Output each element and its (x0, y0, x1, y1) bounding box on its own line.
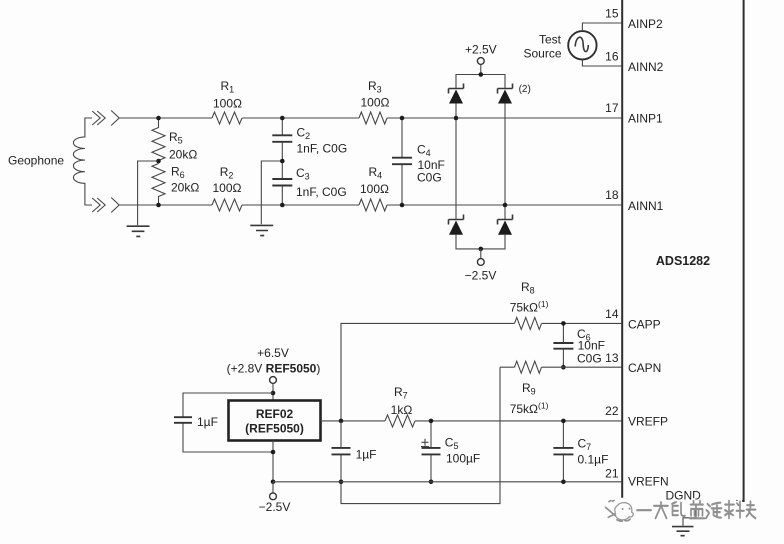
connector jack top (open chevron) (111, 111, 119, 126)
watermark text stroke 蓝 (690, 501, 705, 519)
svg-text:CAPP: CAPP (628, 318, 661, 332)
svg-text:R6: R6 (171, 165, 185, 181)
diode D3 (bottom left, schottky) (449, 215, 464, 235)
resistor R6 (vertical) (152, 164, 165, 206)
node dot VREFN rail left (271, 480, 276, 485)
pin AINN2 name (628, 60, 664, 74)
ground DGND (672, 527, 694, 536)
pin VREFP name (628, 415, 668, 429)
geophone label (8, 154, 64, 168)
C4 label (417, 143, 445, 185)
node dot C7 bottom (561, 480, 566, 485)
wire diode pair to -2.5V rail (456, 235, 505, 249)
svg-text:1nF, C0G: 1nF, C0G (297, 142, 348, 156)
wire R9 return loop to VREFN (341, 367, 500, 503)
R9 label (510, 381, 549, 416)
R4 label (360, 165, 389, 196)
diode D4 (bottom right, schottky) (498, 215, 513, 235)
-2.5V terminal (REF02) (259, 482, 291, 514)
svg-text:20kΩ: 20kΩ (169, 148, 197, 162)
wire REF02 output / VREFP row (321, 420, 622, 422)
node dot rail/VREFN (339, 480, 344, 485)
svg-text:AINN2: AINN2 (628, 60, 664, 74)
wire R5/R6 midnode to ground 1 (138, 161, 159, 225)
capacitor C2 (272, 118, 292, 161)
resistor R5 (vertical) (152, 118, 165, 164)
svg-text:(REF5050): (REF5050) (245, 422, 304, 436)
watermark text stroke 大 (654, 502, 668, 518)
svg-text:22: 22 (605, 404, 619, 418)
capacitor C4 (392, 118, 412, 205)
svg-text:−2.5V: −2.5V (465, 269, 497, 283)
DGND pin label (666, 489, 702, 503)
resistor R2 (212, 199, 242, 211)
resistor R1 (212, 112, 242, 124)
wire pin15 AINP2 (582, 23, 621, 31)
node dot C5 bottom (429, 480, 434, 485)
svg-text:18: 18 (605, 188, 619, 202)
-2.5V terminal (diodes) (465, 249, 497, 283)
node dot rail/VREFP (339, 419, 344, 424)
watermark text stroke 一 (637, 501, 756, 519)
geophone coil L (73, 118, 92, 205)
svg-text:1µF: 1µF (356, 448, 377, 462)
svg-text:C2: C2 (297, 126, 311, 142)
+6.5V terminal (270, 377, 277, 384)
svg-text:C0G: C0G (577, 352, 602, 366)
svg-text:15: 15 (605, 7, 619, 21)
R3 label (361, 79, 390, 110)
node dot R1/R5 top (156, 116, 161, 121)
+2.5V terminal (465, 43, 497, 75)
wire CAPN row (500, 366, 622, 368)
C5 label (445, 436, 480, 466)
node dot REF02 top (271, 391, 276, 396)
pin 21 number (605, 467, 619, 481)
wire AINP1 top row (119, 117, 621, 119)
svg-text:R3: R3 (368, 79, 382, 95)
wire diode column right (504, 104, 506, 220)
capacitor C7 (553, 421, 573, 482)
node dot -2.5V rail (479, 247, 484, 252)
watermark text stroke 科 (725, 501, 744, 519)
svg-text:R2: R2 (220, 165, 234, 181)
C6 label (577, 327, 605, 366)
svg-text:C7: C7 (578, 437, 592, 453)
C3 label (296, 166, 347, 199)
svg-text:10nF: 10nF (578, 339, 605, 353)
connector plug top (double chevron) (92, 111, 105, 125)
R7 label (391, 385, 413, 417)
svg-text:R5: R5 (169, 130, 183, 146)
svg-text:20kΩ: 20kΩ (171, 181, 199, 195)
wire diode column left (455, 104, 457, 220)
pin 16 number (605, 50, 619, 64)
+6.5V supply label (227, 346, 321, 376)
svg-text:1µF: 1µF (197, 415, 218, 429)
node dot C3 bottom (280, 203, 285, 208)
node dot C7 top (561, 419, 566, 424)
R1 label (213, 79, 242, 111)
svg-text:75kΩ(1): 75kΩ(1) (510, 299, 549, 315)
R5 label (169, 130, 197, 162)
svg-text:100µF: 100µF (446, 452, 480, 466)
svg-text:C3: C3 (296, 166, 310, 182)
svg-text:100Ω: 100Ω (213, 181, 242, 195)
svg-text:C5: C5 (445, 436, 459, 452)
svg-text:REF02: REF02 (256, 407, 294, 421)
svg-text:75kΩ(1): 75kΩ(1) (510, 401, 549, 417)
pin AINN1 name (628, 199, 664, 213)
node dot REF02 bottom branch (271, 450, 276, 455)
capacitor C3 (272, 161, 292, 205)
watermark text stroke 海 (706, 503, 722, 519)
test source V1 (568, 31, 596, 59)
capacitor 1uF (rail) (332, 421, 377, 482)
svg-text:(2): (2) (519, 84, 531, 95)
pin 18 number (605, 188, 619, 202)
svg-text:AINP2: AINP2 (628, 17, 663, 31)
capacitor C6 (553, 323, 573, 367)
svg-text:DGND: DGND (666, 489, 702, 503)
svg-text:100Ω: 100Ω (360, 182, 389, 196)
svg-text:R8: R8 (521, 280, 535, 296)
Test Source label (523, 33, 561, 61)
svg-text:100Ω: 100Ω (361, 96, 390, 110)
svg-text:−2.5V: −2.5V (259, 500, 291, 514)
svg-text:17: 17 (605, 101, 619, 115)
pin VREFN name (628, 475, 669, 489)
connector jack bottom (open chevron) (111, 198, 119, 213)
svg-text:CAPN: CAPN (628, 361, 661, 375)
svg-text:AINP1: AINP1 (628, 112, 663, 126)
svg-text:(+2.8V REF5050): (+2.8V REF5050) (227, 362, 321, 376)
wire C2/C3 midnode to ground 2 (261, 161, 282, 224)
node dot C4 top (400, 116, 405, 121)
wire terminal to REF02 (272, 384, 274, 401)
svg-text:13: 13 (605, 351, 619, 365)
wire VREFN rail (273, 481, 622, 483)
pin CAPN name (628, 361, 661, 375)
svg-text:Test: Test (539, 33, 562, 47)
wire DGND to ground (683, 505, 696, 526)
resistor R3 (359, 112, 387, 124)
wire CAPP row right of R8 (542, 322, 622, 324)
ADS1282 label (656, 254, 710, 268)
ground 1 (127, 226, 150, 236)
pin 22 number (605, 404, 619, 418)
node dot R2/R6 bottom (156, 203, 161, 208)
svg-text:R4: R4 (369, 165, 383, 181)
svg-text:VREFN: VREFN (628, 475, 669, 489)
node dot C2/C3 mid (280, 159, 285, 164)
node dot +2.5V rail (479, 72, 484, 77)
node dot R5/R6 mid (156, 159, 161, 164)
watermark text stroke 技 (747, 501, 756, 518)
node dot C6 bottom (561, 365, 566, 370)
C7 label (578, 437, 609, 467)
svg-text:0.1µF: 0.1µF (578, 453, 609, 467)
connector plug bottom (double chevron) (92, 198, 105, 212)
svg-text:R9: R9 (522, 381, 536, 397)
pin 13 number (605, 351, 619, 365)
ADS1282 box (622, 0, 743, 502)
svg-text:R7: R7 (394, 385, 408, 401)
node dot C2 top (280, 116, 285, 121)
pin 15 number (605, 7, 619, 21)
svg-text:14: 14 (605, 307, 619, 321)
svg-text:16: 16 (605, 50, 619, 64)
svg-text:AINN1: AINN1 (628, 199, 664, 213)
pin AINP2 name (628, 17, 663, 31)
resistor R7 (385, 415, 415, 427)
resistor R8 (515, 317, 542, 329)
pin AINP1 name (628, 112, 663, 126)
svg-text:+2.5V: +2.5V (465, 43, 497, 57)
svg-text:C4: C4 (417, 143, 431, 159)
svg-text:+6.5V: +6.5V (257, 346, 289, 360)
pin CAPP name (628, 318, 661, 332)
diode D2 (top right, schottky) (498, 84, 513, 104)
resistor R4 (359, 199, 387, 211)
svg-text:Source: Source (523, 47, 561, 61)
svg-text:1nF, C0G: 1nF, C0G (296, 185, 347, 199)
svg-text:C0G: C0G (417, 171, 442, 185)
capacitor C5 (electrolytic) (421, 421, 441, 482)
wire AINN1 bottom row (119, 204, 621, 206)
wire REF02 bottom to -2.5V (272, 441, 274, 482)
node dot left column on AINP1 (454, 116, 459, 121)
R8 label (510, 280, 549, 315)
svg-text:21: 21 (605, 467, 619, 481)
pin 17 number (605, 101, 619, 115)
watermark text stroke 印 (672, 502, 685, 516)
node dot right column on AINN1 (503, 203, 508, 208)
(2) note label (519, 84, 531, 95)
capacitor C bypass 1uF (left) (174, 415, 218, 429)
svg-text:ADS1282: ADS1282 (656, 254, 710, 268)
watermark halo (637, 501, 756, 519)
wire left branch to C bypass (183, 393, 273, 452)
R6 label (171, 165, 199, 195)
svg-text:Geophone: Geophone (8, 154, 64, 168)
svg-text:1kΩ: 1kΩ (391, 403, 413, 417)
pin 14 number (605, 307, 619, 321)
node dot C4 bottom (400, 203, 405, 208)
resistor R9 (515, 361, 542, 373)
node dot C6 top (561, 321, 566, 326)
svg-text:100Ω: 100Ω (213, 97, 242, 111)
ground 2 (250, 225, 273, 235)
svg-text:VREFP: VREFP (628, 415, 668, 429)
node dot C5 top (429, 419, 434, 424)
watermark mascot (606, 501, 634, 522)
R2 label (213, 165, 242, 195)
diode D1 (top left, schottky) (449, 84, 464, 104)
vertical rail REF02 output to R8/CAPP (341, 323, 515, 421)
wire +2.5V rail to diode pair (456, 75, 505, 89)
wire pin16 AINN2 (582, 60, 621, 66)
op-amp U1 REF02 box (229, 401, 321, 441)
C2 label (297, 126, 348, 156)
svg-text:R1: R1 (221, 79, 235, 95)
